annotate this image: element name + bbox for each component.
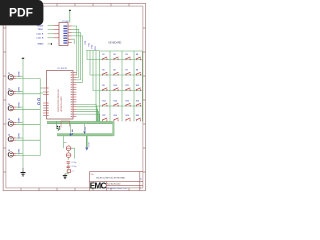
- U3 pin name text column: [63, 26, 67, 44]
- svg-text:S17: S17: [102, 115, 105, 117]
- switch S18: [113, 115, 118, 121]
- title block frame: [90, 172, 144, 191]
- ground crystal: [63, 174, 67, 179]
- wire to U3 left pin: [48, 37, 54, 39]
- wire crystal to ground: [65, 172, 68, 173]
- switch S1: [102, 54, 107, 60]
- capacitor CP2: [66, 153, 71, 158]
- switch S10: [113, 85, 118, 91]
- wire thick bus right vertical: [112, 121, 114, 136]
- ground left bus: [21, 168, 26, 176]
- wire U3 net: [72, 29, 79, 77]
- pin U3 right: [68, 25, 72, 27]
- svg-text:EMC: EMC: [90, 182, 107, 191]
- svg-text:S6: S6: [113, 69, 115, 71]
- IC U3 serial connector body: [59, 23, 68, 46]
- switch S12: [136, 85, 141, 91]
- svg-text:S3: S3: [125, 54, 127, 56]
- switch S16: [136, 100, 141, 106]
- wire keypad row feed: [87, 51, 100, 60]
- port arrow 1: [83, 124, 87, 134]
- svg-text:PDF: PDF: [9, 6, 33, 20]
- wire LS1 top pin to bus: [16, 75, 23, 77]
- switch S20: [136, 115, 141, 121]
- wire U3 net: [72, 36, 83, 82]
- wire U1 lower pin: [76, 112, 98, 122]
- svg-text:S7: S7: [125, 69, 127, 71]
- capacitor C1: [67, 162, 77, 164]
- wire keypad row feed: [93, 51, 100, 91]
- wire LS1 signal: [16, 77, 40, 79]
- U1 pin number marks: [47, 72, 72, 117]
- pin U3 left: [53, 33, 59, 35]
- wire into U1 left pin: [40, 92, 43, 94]
- svg-text:S5: S5: [102, 69, 104, 71]
- svg-text:KEYBOARD: KEYBOARD: [109, 42, 122, 45]
- svg-text:J7 DB9: J7 DB9: [62, 21, 70, 23]
- wire U3 net: [72, 33, 81, 80]
- wire to U3 left pin: [48, 33, 54, 35]
- switch S15: [125, 100, 130, 106]
- wire to U3 left pin: [48, 25, 54, 27]
- switch S8: [136, 69, 141, 75]
- svg-text:S19: S19: [125, 115, 128, 117]
- svg-text:GND: GND: [85, 126, 87, 131]
- wire U1 lower pin: [76, 114, 99, 121]
- svg-text:S9: S9: [102, 85, 104, 87]
- switch S6: [113, 69, 118, 75]
- connector LS6: [8, 148, 21, 157]
- wire LS4 signal: [16, 124, 40, 126]
- svg-text:S13: S13: [102, 100, 105, 102]
- wire vertical collector left: [39, 78, 41, 155]
- U1 right pins: [73, 73, 76, 117]
- wire keypad row feed: [96, 51, 100, 106]
- wire matrix top extension: [86, 50, 100, 52]
- svg-text:S16: S16: [136, 100, 139, 102]
- svg-text:S18: S18: [113, 115, 116, 117]
- svg-text:LCD_E: LCD_E: [37, 34, 44, 36]
- pin U3 right: [68, 42, 72, 44]
- svg-text:S20: S20: [136, 115, 139, 117]
- svg-text:C2 30p: C2 30p: [71, 166, 77, 168]
- wire LS3 signal: [16, 108, 40, 110]
- wire crystal left: [67, 157, 69, 169]
- wire thick bus 2: [57, 134, 113, 136]
- wire into U1 left pin: [40, 87, 43, 89]
- wire keypad row feed: [90, 51, 100, 75]
- svg-text:MICROCONTROLLER KEYPAD: MICROCONTROLLER KEYPAD: [96, 176, 125, 179]
- connector LS3: [8, 101, 21, 110]
- switch S13: [102, 100, 107, 106]
- svg-text:Size A4 Number: Size A4 Number: [107, 182, 121, 185]
- keypad grid verticals: [100, 51, 143, 121]
- capacitor CP1: [66, 146, 71, 151]
- connector LS5: [8, 132, 21, 141]
- svg-text:S10: S10: [113, 85, 116, 87]
- svg-text:S8: S8: [136, 69, 138, 71]
- connector LS1: [8, 71, 21, 80]
- wire LS6 top pin to bus: [16, 152, 23, 154]
- junction cluster black: [57, 126, 60, 131]
- wire crystal drop: [63, 136, 65, 148]
- wire U1 lower pin: [76, 104, 96, 121]
- border zone ticks top: [21, 3, 129, 6]
- wire LS5 top pin to bus: [16, 137, 23, 139]
- port arrow reset: [69, 124, 73, 136]
- pin U3 left: [53, 28, 59, 30]
- wire LS5 signal: [16, 139, 40, 141]
- svg-text:MICROCONTROLLER: MICROCONTROLLER: [58, 89, 60, 112]
- no-connect marks left of U1: [38, 98, 40, 100]
- pin U3 right: [68, 38, 72, 40]
- switch S11: [125, 85, 130, 91]
- wire reset green: [56, 121, 60, 128]
- border zone ticks right: [143, 28, 146, 172]
- wire U1 lower pin: [76, 109, 97, 121]
- pin U3 left: [53, 37, 59, 39]
- svg-text:S1: S1: [102, 54, 104, 56]
- crystal Y1: [67, 170, 73, 173]
- svg-text:RXD0: RXD0: [38, 25, 44, 27]
- svg-text:LCD_R: LCD_R: [37, 38, 44, 40]
- pin U3 right: [68, 28, 72, 30]
- IC U1 microcontroller body: [47, 71, 74, 120]
- switch S19: [125, 115, 130, 121]
- wire U1 lower pin: [76, 107, 97, 122]
- wire LS3 top pin to bus: [16, 106, 23, 108]
- pin U3 right: [68, 35, 72, 37]
- svg-text:S2: S2: [113, 54, 115, 56]
- wire cap right riser: [71, 148, 75, 158]
- switch S9: [102, 85, 107, 91]
- wire U3 pin5 stub: [72, 39, 74, 44]
- wire LS4 top pin to bus: [16, 122, 23, 124]
- wire between caps: [68, 151, 70, 153]
- switch S4: [136, 53, 141, 60]
- wire thick bus 1: [47, 121, 113, 123]
- wire LS6 signal: [16, 155, 40, 157]
- port arrow 2: [85, 136, 90, 151]
- reset network red outline: [61, 121, 70, 128]
- power bar top of left bus: [22, 57, 24, 59]
- switch S14: [113, 99, 118, 106]
- wire LS2 signal: [16, 93, 40, 95]
- svg-text:AT89C51-24PC: AT89C51-24PC: [60, 96, 63, 112]
- svg-text:Y1: Y1: [71, 171, 73, 173]
- switch S5: [102, 69, 107, 75]
- sheet border inner: [6, 6, 143, 188]
- wire to U3 left pin: [48, 28, 54, 30]
- power VCC above U3: [69, 10, 71, 22]
- border zone ticks bottom: [21, 188, 129, 191]
- wire U3 net: [72, 26, 77, 75]
- border zone ticks left: [3, 28, 6, 172]
- svg-text:S15: S15: [125, 100, 128, 102]
- switch S17: [102, 115, 107, 121]
- svg-text:VOUT: VOUT: [89, 141, 91, 147]
- svg-text:C1 30p: C1 30p: [71, 162, 77, 164]
- svg-text:20-10-2007 Sheet 1 of 1: 20-10-2007 Sheet 1 of 1: [107, 187, 127, 190]
- connector LS4: [8, 117, 21, 126]
- U1 left pins: [43, 88, 46, 116]
- svg-text:Title: Title: [90, 173, 93, 176]
- switch S2: [113, 54, 118, 60]
- wire vertical supply bus left column: [22, 59, 24, 169]
- switch S3: [125, 54, 130, 60]
- svg-text:S12: S12: [136, 85, 139, 87]
- wire LS2 top pin to bus: [16, 91, 23, 93]
- svg-text:S11: S11: [125, 85, 128, 87]
- connector LS2: [8, 86, 21, 95]
- pin U3 left: [53, 25, 59, 27]
- svg-text:U1 89C51: U1 89C51: [58, 68, 69, 70]
- switch S7: [125, 69, 130, 75]
- capacitor C2: [67, 166, 77, 168]
- svg-text:TXD0: TXD0: [38, 29, 44, 31]
- pin U3 right: [68, 32, 72, 34]
- svg-text:GND0: GND0: [38, 44, 45, 46]
- sheet border outer: [3, 3, 145, 190]
- keypad grid horizontals: [100, 51, 143, 106]
- PDF badge: [0, 0, 43, 25]
